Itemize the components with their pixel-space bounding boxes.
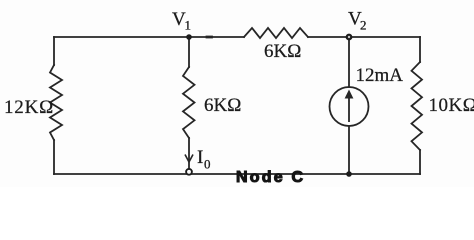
wire V1 down to resistor R3 bbox=[188, 37, 190, 67]
wire V2 down to current source U1 bbox=[348, 37, 350, 87]
svg-text:6KΩ: 6KΩ bbox=[204, 95, 241, 116]
wire left-top vertical bbox=[53, 37, 55, 65]
current source U1 arrow (up) bbox=[345, 90, 354, 123]
label V2 bbox=[348, 9, 367, 33]
svg-text:2: 2 bbox=[360, 18, 367, 33]
current source U1 12mA (circle) bbox=[330, 87, 369, 126]
svg-text:Node C: Node C bbox=[236, 169, 305, 186]
wire V2 to top-right corner bbox=[349, 36, 420, 38]
wire U1 to bottom rail bbox=[348, 126, 350, 174]
wire right-bottom vertical bbox=[419, 150, 421, 174]
svg-text:1: 1 bbox=[185, 18, 192, 33]
svg-text:12mA: 12mA bbox=[356, 65, 404, 86]
wire bottom (node C rail) bbox=[54, 173, 420, 175]
wire R2 to node V2 bbox=[308, 36, 349, 38]
label V1 bbox=[172, 9, 191, 33]
svg-text:12KΩ: 12KΩ bbox=[4, 97, 54, 118]
resistor R2 6KΩ (horizontal, top) bbox=[244, 28, 308, 38]
wire left-bottom vertical bbox=[53, 140, 55, 174]
svg-text:10KΩ: 10KΩ bbox=[429, 95, 474, 116]
svg-text:I: I bbox=[197, 147, 203, 168]
I0 arrowhead (down) bbox=[185, 155, 193, 163]
wire right-top vertical bbox=[419, 37, 421, 62]
junction dot at bottom of current source branch bbox=[346, 171, 352, 177]
svg-text:6KΩ: 6KΩ bbox=[264, 41, 301, 62]
resistor R1 12KΩ (left, vertical) bbox=[50, 65, 62, 140]
node C terminal (open circle at bottom of R3 branch) bbox=[186, 169, 192, 175]
node V2 junction dot (open) bbox=[347, 35, 352, 40]
wire V1 to resistor R2 bbox=[189, 36, 244, 38]
wire top-left (corner to node V1) bbox=[54, 36, 189, 38]
node V1 junction dot bbox=[186, 34, 192, 40]
wire R3 to node C with I0 arrow shaft bbox=[188, 138, 190, 169]
resistor R3 6KΩ (middle, vertical) bbox=[183, 67, 195, 138]
tick mark on top wire bbox=[207, 36, 212, 39]
resistor R4 10KΩ (right, vertical) bbox=[412, 62, 423, 150]
svg-text:0: 0 bbox=[204, 157, 211, 172]
label I0 bbox=[197, 147, 211, 172]
